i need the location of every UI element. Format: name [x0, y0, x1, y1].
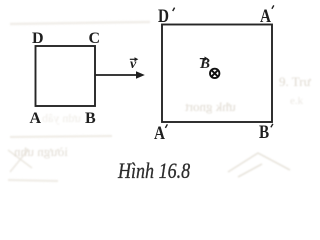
faint bleed-through text under small square	[42, 111, 81, 126]
label D (small square top-left)	[32, 31, 44, 47]
faint diagonal artifact bottom left	[8, 150, 32, 172]
label A' (big square bottom-left)	[154, 124, 165, 143]
label C (small square top-right)	[89, 31, 101, 47]
faint horizontal smudge lines bottom left	[8, 136, 112, 181]
label D' (big square top-left)	[158, 7, 169, 26]
small square loop ABCD	[36, 46, 96, 106]
label B' (big square bottom-right)	[259, 123, 269, 142]
prime tick of bottom A'	[165, 124, 167, 128]
label B (magnetic field)	[200, 57, 210, 72]
prime tick of B'	[271, 124, 273, 128]
label B (small square bottom-right)	[85, 111, 96, 127]
label v (velocity)	[130, 58, 136, 72]
field into page symbol (circle with X)	[210, 69, 219, 78]
faint smudge line top left	[10, 22, 150, 24]
faint bleed-through text right margin	[279, 74, 311, 90]
caption Hinh 16.8	[118, 158, 190, 184]
label A (small square bottom-left)	[30, 111, 42, 127]
faint diagonal artifact bottom right	[228, 153, 290, 177]
faint bleed-through text lower left	[14, 144, 68, 160]
big square loop A'B'D'	[162, 25, 272, 123]
faint bleed-through text inside big square bottom	[185, 99, 236, 115]
label A' (big square top-right)	[260, 7, 271, 26]
faint bleed-through fragment right margin lower	[290, 95, 303, 107]
vector arrow over B label	[200, 57, 209, 61]
arrow v (velocity)	[96, 71, 145, 79]
vector arrow over v label	[130, 57, 139, 61]
prime tick of top A'	[272, 5, 274, 8]
prime tick of D'	[173, 8, 175, 11]
